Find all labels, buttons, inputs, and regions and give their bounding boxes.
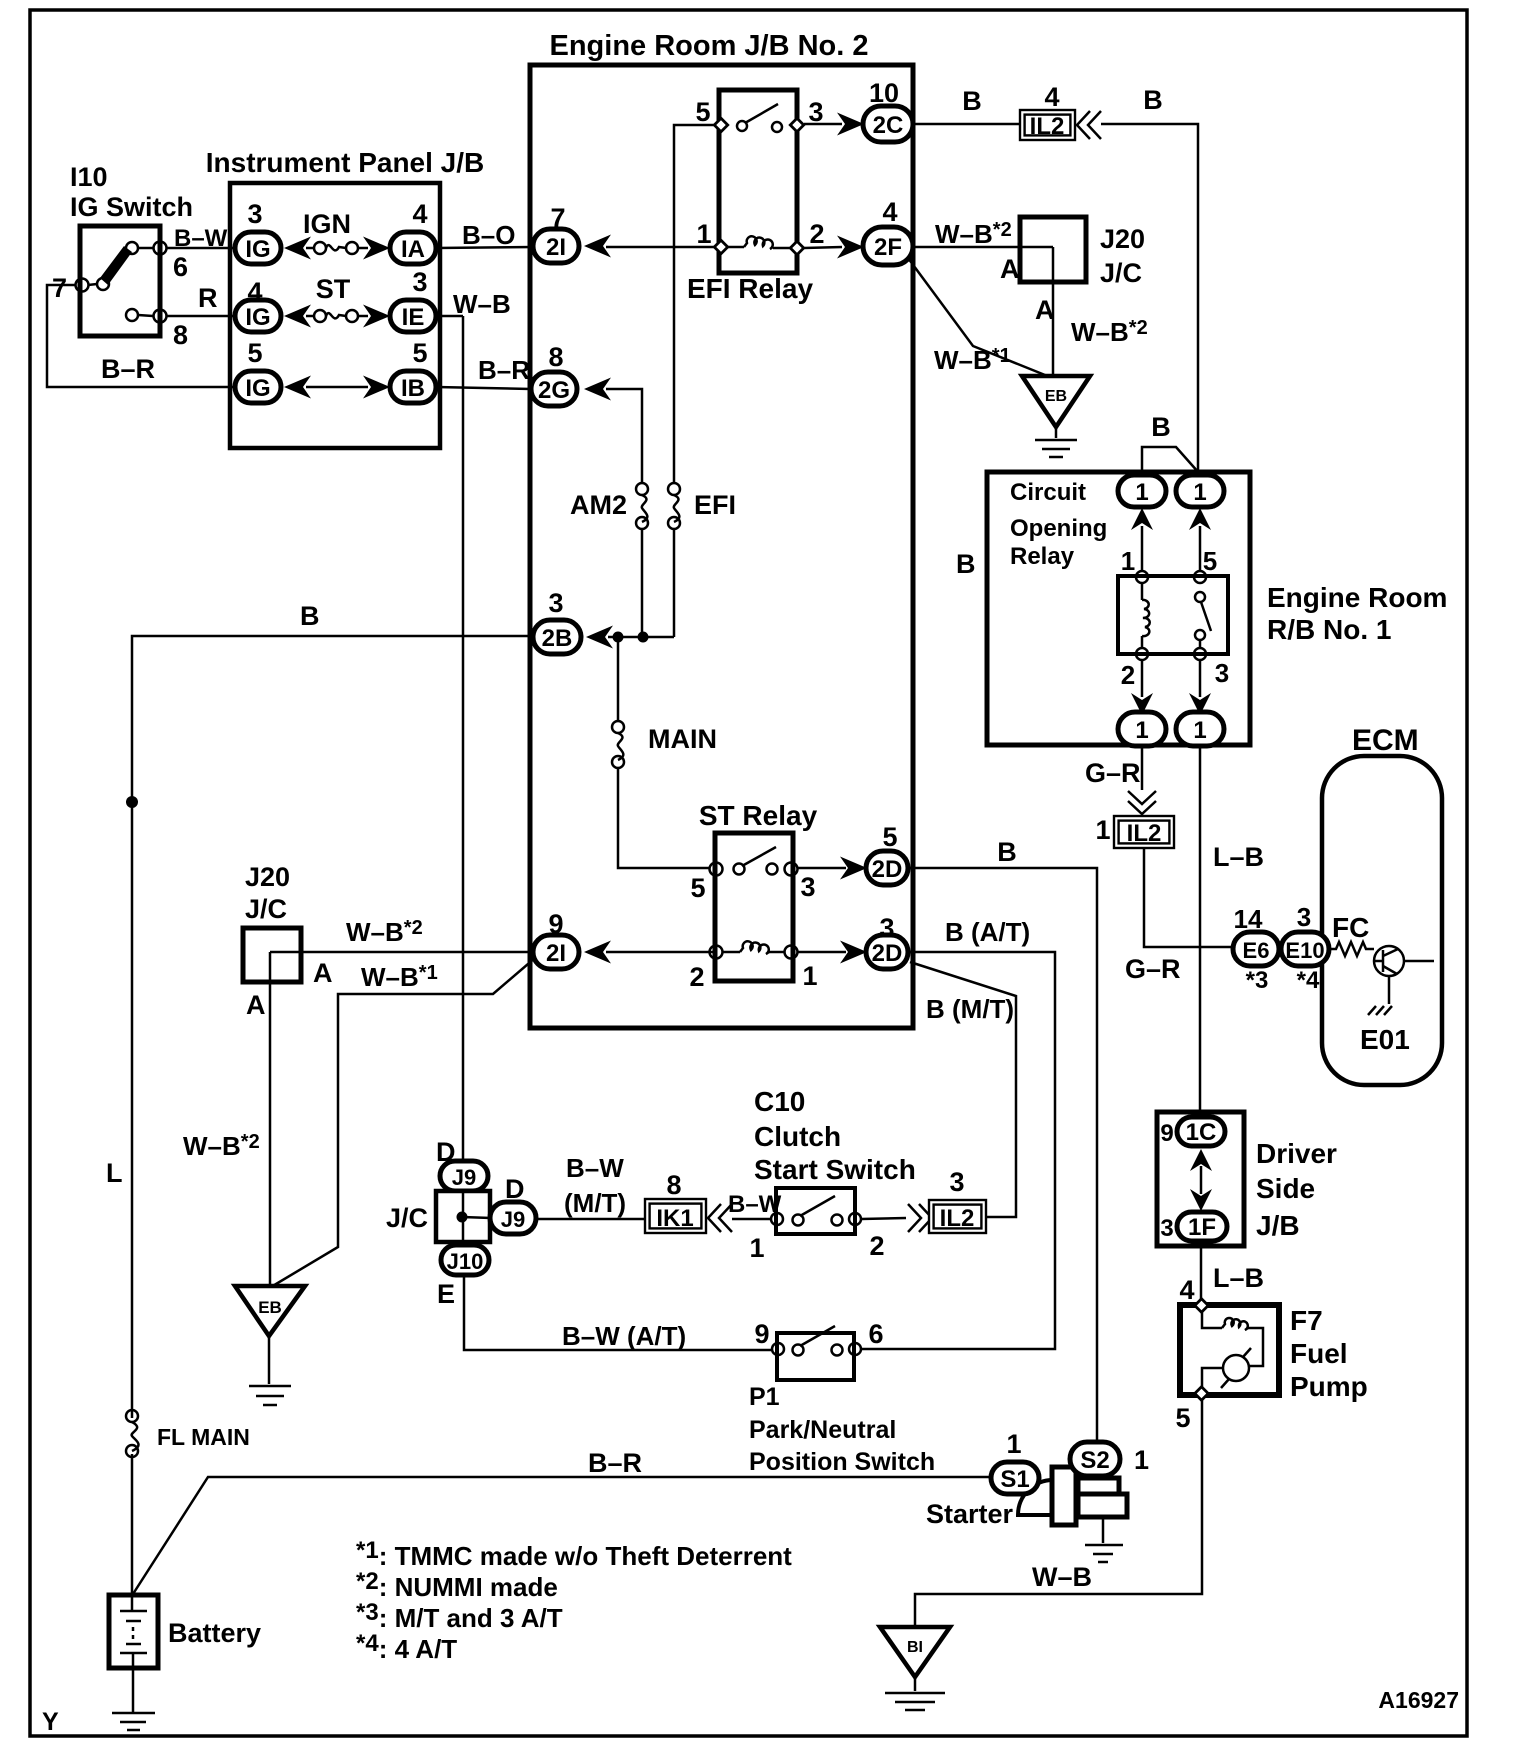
svg-text:Starter: Starter (926, 1499, 1014, 1529)
svg-text:IK1: IK1 (656, 1205, 693, 1232)
svg-text:E6: E6 (1243, 938, 1270, 963)
svg-text:Relay: Relay (1010, 543, 1075, 570)
svg-text:A: A (1000, 254, 1020, 284)
svg-text:B–R: B–R (588, 1448, 642, 1478)
svg-text:B–R: B–R (101, 354, 155, 384)
svg-text:MAIN: MAIN (648, 724, 717, 754)
svg-text:*4: *4 (1297, 967, 1320, 994)
svg-text:3: 3 (1297, 902, 1311, 932)
svg-text:Engine Room: Engine Room (1267, 582, 1447, 613)
svg-text:4: 4 (1179, 1275, 1194, 1305)
svg-text:Fuel: Fuel (1290, 1338, 1348, 1369)
svg-text:Start Switch: Start Switch (754, 1154, 916, 1185)
svg-text:8: 8 (666, 1170, 681, 1200)
svg-text:IG: IG (245, 304, 270, 331)
svg-text:Side: Side (1256, 1173, 1315, 1204)
svg-text:IG: IG (245, 236, 270, 263)
svg-text:Instrument Panel J/B: Instrument Panel J/B (206, 147, 485, 178)
svg-text:1: 1 (1006, 1429, 1021, 1459)
svg-text:5: 5 (412, 338, 427, 368)
svg-text:1: 1 (1134, 1445, 1149, 1475)
svg-text:6: 6 (868, 1319, 883, 1349)
svg-text:IL2: IL2 (1030, 113, 1065, 140)
svg-text:L–B: L–B (1213, 842, 1264, 872)
svg-text:1: 1 (696, 219, 711, 249)
svg-text:3: 3 (548, 588, 563, 618)
svg-text:2D: 2D (872, 940, 903, 967)
svg-text:Park/Neutral: Park/Neutral (749, 1416, 896, 1444)
svg-text:4: 4 (247, 277, 262, 307)
svg-text:5: 5 (1203, 546, 1217, 576)
svg-text:4: 4 (882, 197, 897, 227)
svg-text:14: 14 (1234, 904, 1263, 934)
svg-text:EFI: EFI (694, 490, 736, 520)
svg-text:5: 5 (695, 97, 710, 127)
svg-text:G–R: G–R (1085, 758, 1141, 788)
svg-text:5: 5 (690, 873, 705, 903)
svg-text:1: 1 (749, 1233, 764, 1263)
svg-text:IG Switch: IG Switch (70, 192, 193, 222)
svg-text:1: 1 (1135, 717, 1148, 744)
svg-text:A: A (246, 990, 266, 1020)
svg-text:B–W: B–W (566, 1153, 624, 1183)
svg-text:3: 3 (808, 97, 823, 127)
svg-text:F7: F7 (1290, 1305, 1323, 1336)
svg-text:B (M/T): B (M/T) (926, 994, 1014, 1024)
svg-text:3: 3 (800, 872, 815, 902)
svg-text:L–B: L–B (1213, 1263, 1264, 1293)
svg-text:B: B (1151, 412, 1171, 442)
svg-text:J9: J9 (501, 1207, 525, 1232)
svg-text:B–R: B–R (478, 355, 530, 385)
svg-text:EFI Relay: EFI Relay (687, 273, 813, 304)
svg-text:2: 2 (689, 962, 704, 992)
svg-text:IL2: IL2 (1127, 820, 1162, 847)
svg-text:G–R: G–R (1125, 954, 1181, 984)
svg-text:A: A (313, 958, 333, 988)
svg-text:3: 3 (412, 267, 427, 297)
svg-text:B–O: B–O (462, 220, 515, 250)
svg-text:Opening: Opening (1010, 515, 1107, 542)
svg-text:C10: C10 (754, 1086, 805, 1117)
svg-text:B: B (997, 837, 1017, 867)
svg-text:FL MAIN: FL MAIN (157, 1424, 250, 1450)
svg-text:1: 1 (1193, 717, 1206, 744)
svg-text:5: 5 (1175, 1403, 1190, 1433)
svg-text:9: 9 (548, 909, 563, 939)
svg-text:IG: IG (245, 375, 270, 402)
svg-text:FC: FC (1332, 912, 1369, 943)
svg-text:EB: EB (258, 1298, 282, 1317)
svg-text:1F: 1F (1188, 1214, 1216, 1241)
svg-text:2I: 2I (546, 234, 566, 261)
svg-text:Driver: Driver (1256, 1138, 1337, 1169)
svg-text:D: D (436, 1137, 456, 1167)
svg-text:Engine Room J/B No. 2: Engine Room J/B No. 2 (549, 30, 868, 62)
svg-text:Battery: Battery (168, 1618, 261, 1648)
svg-text:9: 9 (754, 1319, 769, 1349)
svg-text:IA: IA (401, 236, 425, 263)
svg-text:J/B: J/B (1256, 1210, 1300, 1241)
svg-text:1: 1 (1121, 546, 1135, 576)
svg-text:IE: IE (402, 304, 425, 331)
svg-text:8: 8 (548, 342, 563, 372)
svg-text:*2: NUMMI made: *2: NUMMI made (356, 1568, 558, 1602)
svg-text:S2: S2 (1080, 1447, 1109, 1474)
svg-text:*3: M/T and 3 A/T: *3: M/T and 3 A/T (356, 1599, 563, 1633)
svg-text:E: E (437, 1279, 455, 1309)
svg-text:1: 1 (1193, 479, 1206, 506)
svg-text:J/C: J/C (386, 1203, 428, 1233)
svg-text:5: 5 (882, 822, 897, 852)
svg-text:I10: I10 (70, 162, 108, 192)
svg-text:*3: *3 (1246, 967, 1269, 994)
svg-text:BI: BI (907, 1639, 923, 1656)
svg-text:2C: 2C (873, 112, 904, 139)
svg-text:E10: E10 (1285, 938, 1324, 963)
svg-text:3: 3 (949, 1167, 964, 1197)
svg-text:J/C: J/C (1100, 258, 1142, 288)
svg-text:Clutch: Clutch (754, 1121, 841, 1152)
svg-text:A16927: A16927 (1378, 1687, 1459, 1713)
svg-text:2: 2 (869, 1231, 884, 1261)
svg-text:J10: J10 (447, 1249, 484, 1274)
svg-text:5: 5 (247, 338, 262, 368)
svg-text:Position Switch: Position Switch (749, 1448, 935, 1476)
svg-text:7: 7 (52, 273, 67, 303)
svg-text:J20: J20 (245, 862, 290, 892)
svg-text:(M/T): (M/T) (564, 1188, 626, 1218)
svg-text:ECM: ECM (1352, 724, 1419, 757)
svg-text:L: L (106, 1158, 123, 1188)
svg-text:W–B: W–B (1032, 1562, 1092, 1592)
svg-text:3: 3 (1215, 658, 1229, 688)
svg-text:EB: EB (1045, 388, 1067, 405)
svg-text:6: 6 (173, 252, 188, 282)
svg-text:10: 10 (869, 78, 899, 108)
svg-text:B: B (300, 601, 320, 631)
svg-text:A: A (1035, 295, 1055, 325)
svg-text:*1: TMMC made w/o Theft Deterr: *1: TMMC made w/o Theft Deterrent (356, 1537, 792, 1571)
svg-text:J9: J9 (452, 1165, 476, 1190)
svg-text:4: 4 (412, 199, 427, 229)
svg-text:IGN: IGN (303, 209, 351, 239)
svg-text:J/C: J/C (245, 894, 287, 924)
svg-text:AM2: AM2 (570, 490, 627, 520)
svg-text:2G: 2G (538, 377, 570, 404)
svg-text:1: 1 (1135, 479, 1148, 506)
svg-text:Y: Y (42, 1708, 59, 1736)
svg-text:1C: 1C (1186, 1119, 1217, 1146)
svg-text:2: 2 (1121, 660, 1135, 690)
svg-text:2D: 2D (872, 856, 903, 883)
svg-text:3: 3 (247, 199, 262, 229)
svg-text:1: 1 (1095, 815, 1110, 845)
svg-text:D: D (505, 1174, 525, 1204)
svg-text:P1: P1 (749, 1383, 780, 1411)
svg-text:B (A/T): B (A/T) (945, 917, 1030, 947)
svg-text:2B: 2B (542, 625, 573, 652)
svg-text:B: B (956, 549, 976, 579)
svg-text:2F: 2F (874, 234, 902, 261)
svg-text:IB: IB (401, 375, 425, 402)
svg-text:3: 3 (879, 913, 894, 943)
svg-text:B–W (A/T): B–W (A/T) (562, 1321, 686, 1351)
svg-text:R: R (198, 283, 218, 313)
svg-text:3: 3 (1160, 1215, 1173, 1242)
svg-text:IL2: IL2 (940, 1205, 975, 1232)
svg-text:B: B (962, 86, 982, 116)
svg-text:2: 2 (809, 219, 824, 249)
svg-text:1: 1 (802, 961, 817, 991)
svg-text:2I: 2I (546, 940, 566, 967)
svg-text:Circuit: Circuit (1010, 479, 1086, 506)
svg-text:R/B No. 1: R/B No. 1 (1267, 614, 1391, 645)
svg-text:ST Relay: ST Relay (699, 800, 818, 831)
svg-text:E01: E01 (1360, 1024, 1410, 1055)
svg-text:8: 8 (173, 320, 188, 350)
svg-text:ST: ST (316, 274, 351, 304)
svg-text:W–B: W–B (453, 289, 511, 319)
svg-text:S1: S1 (1000, 1466, 1029, 1493)
svg-text:4: 4 (1044, 82, 1059, 112)
svg-text:9: 9 (1160, 1120, 1173, 1147)
svg-text:7: 7 (550, 203, 565, 233)
svg-text:B: B (1143, 85, 1163, 115)
svg-text:Pump: Pump (1290, 1371, 1368, 1402)
svg-text:J20: J20 (1100, 224, 1145, 254)
